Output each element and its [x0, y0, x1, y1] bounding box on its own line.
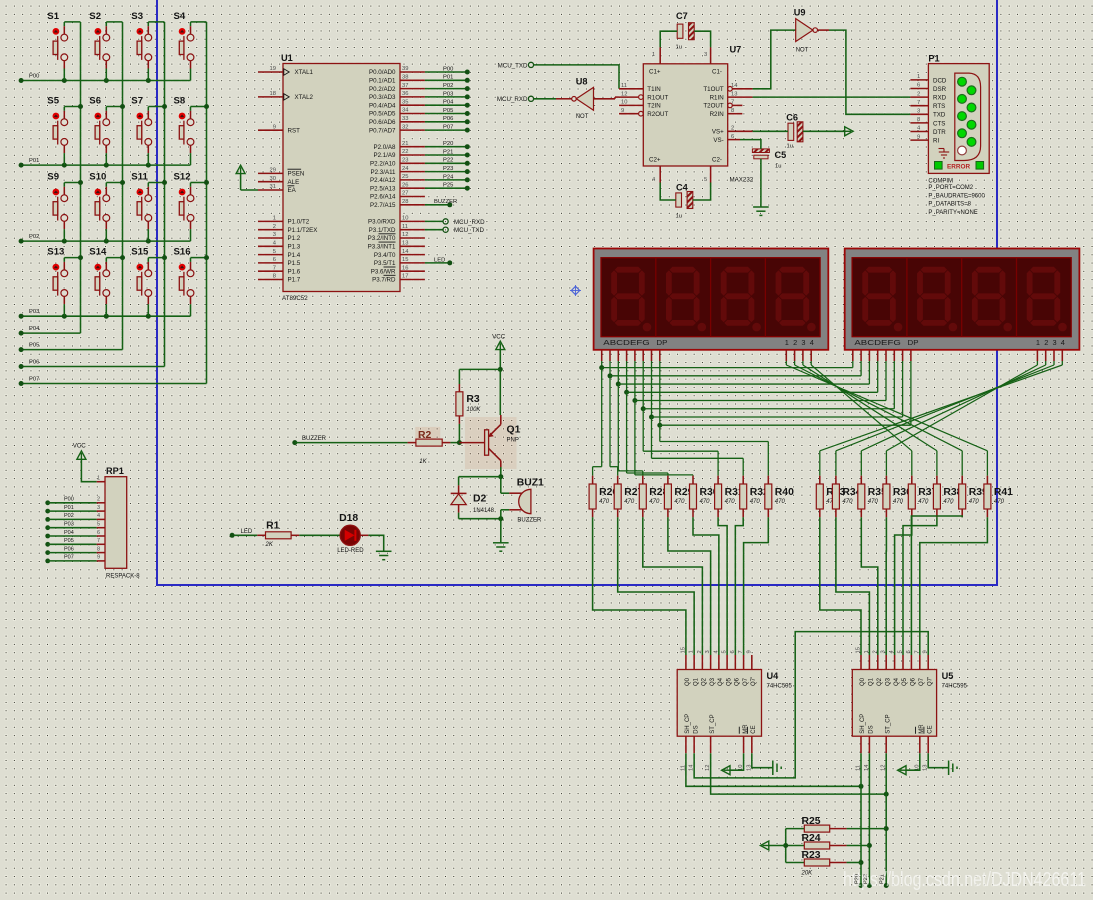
svg-text:470: 470 — [943, 499, 954, 505]
svg-text:P04: P04 — [29, 326, 40, 332]
svg-text:6: 6 — [906, 650, 912, 653]
svg-text:470: 470 — [700, 499, 711, 505]
svg-text:P_BAUDRATE=9600: P_BAUDRATE=9600 — [928, 194, 985, 200]
svg-text:R1IN: R1IN — [710, 94, 724, 101]
node buzzer bottom junction — [498, 516, 503, 521]
pin 6 Q6 — [906, 650, 917, 686]
svg-text:470: 470 — [599, 499, 610, 505]
svg-text:T1IN: T1IN — [647, 86, 660, 93]
DB9 pin circle right 4 — [967, 138, 976, 147]
pin 7 Q7 — [914, 650, 925, 686]
svg-text:P21: P21 — [443, 149, 453, 155]
terminal MCU_RXD — [497, 96, 534, 103]
capacitor C7 1u — [660, 11, 710, 51]
svg-text:Q1: Q1 — [869, 677, 875, 686]
pin 5 P1.4 — [258, 249, 301, 259]
svg-text:4: 4 — [810, 338, 814, 347]
svg-text:28: 28 — [402, 199, 408, 205]
svg-text:P1.7: P1.7 — [288, 277, 301, 284]
pin 1 Q1 — [689, 650, 700, 686]
svg-text:RTS: RTS — [933, 103, 945, 110]
svg-text:P05: P05 — [29, 342, 39, 348]
wire resistor group2 #2 to U5 Q1 — [836, 517, 870, 655]
wire display1 segment F net — [641, 361, 895, 476]
pin 2 RXD — [910, 91, 946, 101]
svg-text:3: 3 — [881, 650, 887, 653]
svg-text:29: 29 — [270, 168, 276, 174]
svg-text:Q1: Q1 — [693, 677, 699, 686]
svg-text:S10: S10 — [89, 172, 106, 183]
wire keypad column 3 — [164, 22, 166, 367]
svg-text:P3.4/T0: P3.4/T0 — [374, 252, 396, 259]
label 20K — [801, 870, 814, 876]
ground inside P1 — [939, 149, 950, 159]
wire resistor group1 #3 to U4 Q2 — [643, 517, 703, 655]
svg-text:36: 36 — [402, 91, 408, 97]
switch S5 — [47, 96, 83, 166]
DB9 pin circle right 2 — [967, 103, 976, 112]
wire display1 digit 4 to resistor — [811, 361, 912, 476]
svg-text:ST_CP: ST_CP — [885, 714, 891, 733]
power terminal at U5 MR — [898, 753, 920, 775]
svg-text:P2.1/A9: P2.1/A9 — [373, 152, 396, 159]
node Q1 base junction — [457, 440, 485, 445]
resistor R35 470 — [858, 476, 887, 518]
svg-text:15: 15 — [680, 647, 686, 653]
pin 14 T1OUT — [703, 83, 752, 93]
pin 6 Q6 — [730, 650, 741, 686]
pin 10 T2IN — [619, 100, 661, 110]
svg-text:P02: P02 — [443, 83, 453, 89]
svg-text:5: 5 — [722, 650, 728, 653]
svg-text:S6: S6 — [89, 96, 101, 107]
svg-text:S14: S14 — [89, 247, 107, 258]
pin 8 P1.7 — [258, 274, 301, 284]
svg-text:33: 33 — [402, 116, 408, 122]
svg-text:P05: P05 — [443, 108, 453, 114]
ERROR indicator — [935, 162, 984, 171]
pin 24 P2.3/A11 — [371, 166, 470, 176]
svg-text:8: 8 — [97, 546, 100, 552]
svg-text:MCU_RXD: MCU_RXD — [497, 96, 528, 103]
svg-text:P2.0/A8: P2.0/A8 — [373, 144, 396, 151]
wire display1 digit 2 to resistor — [795, 361, 963, 476]
svg-text:P3.5/T1: P3.5/T1 — [374, 260, 396, 267]
svg-text:3: 3 — [97, 505, 100, 511]
svg-text:12: 12 — [402, 232, 408, 238]
svg-text:2K: 2K — [265, 542, 274, 548]
wire R23/R24/R25 common to power arrow — [760, 829, 788, 863]
ground at D18 — [376, 551, 392, 559]
pin 7 T2OUT — [703, 100, 742, 110]
svg-text:P1.0/T2: P1.0/T2 — [288, 219, 310, 226]
svg-text:P1.4: P1.4 — [288, 252, 301, 259]
wire display2 digit 1 to resistor — [886, 361, 1037, 476]
svg-text:2: 2 — [793, 338, 797, 347]
svg-text:S12: S12 — [174, 172, 191, 183]
switch S6 — [89, 96, 125, 166]
svg-text:34: 34 — [402, 108, 409, 114]
pin 5 C2- — [704, 157, 722, 184]
svg-text:P1.1/T2EX: P1.1/T2EX — [288, 227, 318, 234]
pin 2 P1.1/T2EX — [258, 224, 317, 234]
svg-text:11: 11 — [402, 224, 408, 230]
pin 9 R2OUT — [619, 108, 668, 118]
display 7SEG-2 pin stubs — [853, 350, 1063, 361]
svg-text:P03: P03 — [64, 522, 74, 528]
svg-text:7: 7 — [917, 100, 920, 106]
svg-text:P07: P07 — [29, 376, 39, 382]
ic U5 74HC595 — [852, 670, 967, 737]
buzzer BUZ1 — [501, 477, 544, 524]
svg-text:3: 3 — [1053, 338, 1057, 347]
resistor R26 470 — [589, 476, 618, 518]
svg-text:Q7': Q7' — [927, 677, 933, 686]
pin 29 PSEN — [258, 168, 304, 178]
pin 7 P1.6 — [258, 265, 301, 275]
svg-text:P01: P01 — [29, 158, 39, 164]
pin 2 Q2 — [697, 650, 708, 686]
svg-text:10: 10 — [402, 216, 408, 222]
svg-text:COMPIM: COMPIM — [928, 179, 953, 185]
ground under C5 — [753, 159, 769, 216]
pin 4 Q4 — [713, 650, 724, 687]
wire row net P01 — [19, 158, 191, 168]
pin 4 DTR — [910, 126, 946, 136]
ic U7 MAX232 — [643, 45, 753, 184]
pin 7 P05 — [45, 538, 105, 547]
svg-text:P00: P00 — [64, 497, 74, 503]
pin 1 DCD — [910, 74, 947, 84]
svg-text:U4: U4 — [767, 671, 780, 681]
resistor R27 470 — [614, 476, 643, 518]
wire R1IN to P1 RXD — [753, 96, 911, 98]
pin 12 P3.2/INT0 — [368, 232, 425, 242]
svg-text:U7: U7 — [730, 45, 742, 55]
resistor R25 20K — [786, 816, 887, 832]
pin 1 Q1 — [864, 650, 875, 686]
svg-text:P04: P04 — [64, 530, 74, 536]
ground at U4 CE — [752, 753, 781, 775]
switch S16 — [174, 247, 210, 317]
svg-text:PNP: PNP — [507, 438, 519, 444]
svg-text:6: 6 — [730, 650, 736, 653]
svg-text:D18: D18 — [339, 513, 358, 524]
svg-text:P0.0/AD0: P0.0/AD0 — [369, 69, 396, 76]
svg-text:S3: S3 — [131, 11, 143, 22]
pin 17 P3.7/RD — [372, 274, 425, 284]
svg-text:P3.2/INT0: P3.2/INT0 — [368, 235, 396, 242]
svg-text:Q2: Q2 — [702, 677, 708, 686]
svg-text:BUZZER: BUZZER — [434, 199, 457, 205]
connector P1 COMPIM — [928, 54, 989, 174]
svg-text:S11: S11 — [131, 172, 148, 183]
pin 14 P3.4/T0 — [374, 249, 425, 259]
pin 5 Q5 — [898, 650, 909, 686]
pin 6 DSR — [910, 83, 946, 93]
wire resistor group1 #8 to U4 Q7 — [744, 517, 769, 655]
svg-text:ABCDEFG: ABCDEFG — [854, 338, 901, 347]
switch S15 — [131, 247, 167, 317]
svg-text:P1.5: P1.5 — [288, 260, 301, 267]
svg-text:S2: S2 — [89, 11, 101, 22]
svg-text:6: 6 — [273, 257, 276, 263]
svg-text:P22: P22 — [443, 158, 453, 164]
DB9 pin circle left 2 — [958, 95, 967, 104]
svg-text:R1OUT: R1OUT — [647, 94, 668, 101]
svg-text:Q1: Q1 — [507, 425, 521, 436]
pin 35 P0.4/AD4 net P04 — [369, 99, 470, 109]
watermark — [843, 868, 1086, 891]
svg-text:SH_CP: SH_CP — [860, 714, 866, 734]
wire row net P07 — [19, 376, 207, 386]
resistor R32 470 — [740, 476, 769, 518]
switch S1 — [47, 11, 80, 81]
svg-text:1: 1 — [864, 650, 870, 653]
resistor R2 1K — [292, 430, 459, 465]
svg-text:21: 21 — [402, 141, 408, 147]
svg-text:SH_CP: SH_CP — [685, 714, 691, 734]
wire resistor group1 #2 to U4 Q1 — [618, 517, 694, 655]
svg-text:P00: P00 — [443, 66, 453, 72]
resistor R36 470 — [883, 476, 912, 518]
wire resistor group1 #1 to U4 Q0 — [593, 517, 686, 655]
terminal MCU_TXD — [498, 62, 534, 69]
svg-text:MAX232: MAX232 — [730, 177, 754, 184]
wire row net P06 — [19, 359, 165, 369]
svg-text:100K: 100K — [466, 407, 481, 413]
pin 12 ST_CP — [881, 714, 892, 771]
pin 39 P0.0/AD0 net P00 — [369, 66, 470, 76]
pin 18 XTAL2 — [258, 91, 314, 101]
wire display1 segment G net — [649, 361, 903, 476]
ic U4 74HC595 — [677, 670, 792, 737]
pin 4 C2+ — [649, 157, 661, 184]
switch S7 — [131, 96, 167, 166]
wire display2 digit 2 to resistor — [861, 361, 1045, 476]
svg-text:P06: P06 — [29, 359, 39, 365]
svg-text:R1: R1 — [266, 521, 280, 532]
pin 9 P07 — [45, 555, 105, 564]
pin 14 DS — [689, 725, 700, 771]
pin 11 P3.1/TXD — [369, 224, 485, 234]
svg-text:470: 470 — [674, 499, 685, 505]
svg-text:Q7: Q7 — [919, 677, 925, 686]
svg-text:9: 9 — [917, 134, 920, 140]
svg-text:DCD: DCD — [933, 77, 947, 84]
svg-text:C1-: C1- — [712, 69, 722, 76]
switch S4 — [174, 11, 207, 81]
svg-text:26: 26 — [402, 182, 408, 188]
svg-text:LED: LED — [241, 529, 253, 535]
svg-text:P07: P07 — [443, 125, 453, 131]
pin 5 Q5 — [722, 650, 733, 686]
svg-text:470: 470 — [842, 499, 853, 505]
svg-text:LED-RED: LED-RED — [337, 548, 364, 554]
svg-text:P06: P06 — [443, 116, 453, 122]
svg-text:1: 1 — [652, 52, 655, 58]
wire net P21 — [880, 753, 889, 888]
DB9 pin circle right 1 — [967, 86, 976, 95]
DB9 pin circle white — [958, 146, 967, 155]
pin 3 P1.2 — [258, 232, 301, 242]
svg-text:P01: P01 — [64, 505, 74, 511]
svg-text:P2.7/A15: P2.7/A15 — [370, 202, 396, 209]
svg-text:CTS: CTS — [933, 120, 945, 127]
wire resistor group2 #5 to U5 Q4 — [895, 517, 912, 655]
pin 2 P00 — [45, 497, 105, 506]
svg-text:MCU_TXD: MCU_TXD — [454, 227, 484, 234]
pin 6 P1.5 — [258, 257, 301, 267]
svg-text:20K: 20K — [801, 870, 814, 876]
svg-text:13: 13 — [402, 241, 408, 247]
respack RP1 RESPACK-8 — [105, 466, 140, 580]
transistor Q1 PNP — [485, 415, 521, 467]
pin 2 Q2 — [872, 650, 883, 686]
wire row net P02 — [19, 234, 191, 244]
pin 14 DS — [864, 725, 875, 771]
pin 30 ALE — [258, 176, 299, 186]
svg-text:5: 5 — [898, 650, 904, 653]
svg-text:BUZ1: BUZ1 — [517, 478, 544, 489]
wire R1 to D18 — [299, 534, 340, 536]
svg-text:P0.5/AD5: P0.5/AD5 — [369, 111, 396, 118]
wire display1 segment B net — [608, 361, 862, 476]
svg-text:4: 4 — [1061, 338, 1065, 347]
pin 33 P0.6/AD6 net P06 — [369, 116, 470, 126]
pin 31 EA — [258, 184, 297, 194]
svg-text:2: 2 — [97, 497, 100, 503]
svg-text:31: 31 — [270, 184, 276, 190]
svg-text:Q7': Q7' — [751, 677, 757, 686]
svg-text:P1: P1 — [928, 54, 939, 64]
resistor R37 470 — [908, 476, 937, 518]
svg-text:DTR: DTR — [933, 129, 946, 136]
resistor R38 470 — [933, 476, 962, 518]
svg-text:1K: 1K — [419, 459, 427, 465]
svg-text:37: 37 — [402, 83, 408, 89]
pin 19 XTAL1 — [258, 66, 314, 76]
svg-text:R25: R25 — [802, 816, 821, 827]
svg-text:6: 6 — [97, 530, 100, 536]
svg-text:RI: RI — [933, 138, 939, 145]
wire display1 segment D net — [624, 361, 878, 476]
pin 11 SH_CP — [680, 714, 691, 771]
svg-text:P1.3: P1.3 — [288, 244, 301, 251]
resistor R1 2K — [257, 521, 299, 549]
power terminal at U4 MR — [722, 753, 744, 775]
inverter U8 NOT — [572, 77, 594, 121]
resistor R31 470 — [715, 476, 744, 518]
svg-text:P23: P23 — [443, 166, 453, 172]
wire resistor group2 #4 to U5 Q3 — [885, 517, 887, 655]
pin 9 RST — [258, 124, 300, 134]
svg-text:1: 1 — [273, 216, 276, 222]
svg-text:Q5: Q5 — [902, 677, 908, 686]
capacitor C6 1u — [753, 112, 803, 149]
svg-text:P0.2/AD2: P0.2/AD2 — [369, 86, 396, 93]
svg-text:S1: S1 — [47, 11, 59, 22]
svg-text:P02: P02 — [29, 234, 39, 240]
svg-text:Q4: Q4 — [894, 677, 900, 686]
svg-text:T2OUT: T2OUT — [703, 103, 724, 110]
svg-text:P01: P01 — [443, 75, 453, 81]
svg-text:25: 25 — [402, 174, 408, 180]
svg-text:S5: S5 — [47, 96, 59, 107]
wire MCU_TXD to U7 T1IN — [534, 65, 619, 89]
resistor R34 470 — [832, 476, 861, 518]
svg-text:T2IN: T2IN — [647, 103, 660, 110]
svg-text:RP1: RP1 — [106, 466, 124, 476]
pin 3 Q3 — [881, 650, 892, 686]
svg-text:P0.1/AD1: P0.1/AD1 — [369, 78, 396, 85]
svg-text:Q6: Q6 — [911, 677, 917, 686]
svg-text:D2: D2 — [473, 494, 487, 505]
pin 7 RTS — [910, 100, 945, 110]
svg-text:27: 27 — [402, 191, 408, 197]
resistor R39 470 — [959, 476, 988, 518]
resistor R40 470 — [765, 476, 794, 518]
svg-text:18: 18 — [270, 91, 276, 97]
pin 2 VS+ — [712, 126, 753, 136]
svg-text:AT89C52: AT89C52 — [282, 295, 308, 302]
svg-text:7: 7 — [97, 538, 100, 544]
svg-text:P06: P06 — [64, 546, 74, 552]
power terminal VCC — [492, 334, 506, 370]
svg-text:P0.4/AD4: P0.4/AD4 — [369, 102, 396, 109]
svg-text:C2-: C2- — [712, 157, 722, 164]
svg-text:DP: DP — [908, 338, 919, 347]
pin 15 P3.5/T1 — [374, 257, 452, 267]
svg-text:C4: C4 — [676, 183, 689, 193]
ground under buzzer — [493, 519, 509, 552]
wire resistor group2 #3 to U5 Q2 — [861, 517, 878, 655]
wire display2 digit 4 to resistor — [820, 361, 1063, 476]
svg-text:P3.1/TXD: P3.1/TXD — [369, 227, 396, 234]
svg-text:C5: C5 — [775, 150, 787, 160]
switch S10 — [89, 172, 125, 242]
svg-text:S4: S4 — [174, 11, 186, 22]
svg-text:ALE: ALE — [288, 179, 300, 186]
svg-text:1: 1 — [917, 74, 920, 80]
svg-text:470: 470 — [868, 499, 879, 505]
svg-text:Q7: Q7 — [743, 677, 749, 686]
wire net P20 — [855, 753, 864, 888]
svg-text:CE: CE — [751, 725, 757, 733]
svg-text:P_PORT=COM2: P_PORT=COM2 — [928, 185, 973, 191]
svg-text:P3.7/RD: P3.7/RD — [372, 277, 396, 284]
svg-text:EA: EA — [288, 187, 297, 194]
svg-text:24: 24 — [402, 166, 409, 172]
svg-text:3: 3 — [705, 650, 711, 653]
pin 9 RI — [910, 134, 939, 144]
wire VCC to Q1 emitter — [499, 369, 501, 415]
svg-text:C7: C7 — [676, 11, 688, 21]
svg-text:CE: CE — [927, 725, 933, 733]
svg-text:38: 38 — [402, 75, 408, 81]
pin 13 P3.3/INT1 — [368, 241, 425, 251]
wire row net P04 — [19, 326, 81, 336]
wire LED net — [230, 529, 258, 538]
svg-text:S8: S8 — [174, 96, 186, 107]
svg-text:470: 470 — [775, 499, 786, 505]
svg-text:2: 2 — [917, 91, 920, 97]
svg-text:1u: 1u — [676, 45, 682, 51]
svg-text:XTAL1: XTAL1 — [295, 69, 314, 76]
pin 34 P0.5/AD5 net P05 — [369, 108, 470, 118]
DB9 pin circle left 3 — [958, 112, 967, 121]
wire resistor group1 #6 to U4 Q5 — [718, 517, 727, 655]
